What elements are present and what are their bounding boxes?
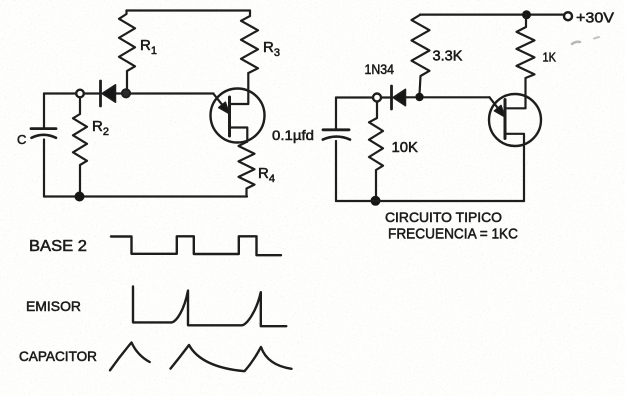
resistor R3: [241, 11, 258, 74]
resistor 3.3K: [412, 15, 430, 95]
node D: junction dot diode/3.3K/emitter (right circuit): [415, 93, 423, 101]
svg-text:1N34: 1N34: [365, 62, 395, 77]
wire: top rail of right circuit: [420, 14, 564, 16]
svg-text:BASE 2: BASE 2: [29, 238, 87, 255]
svg-text:3.3K: 3.3K: [433, 49, 463, 65]
svg-text:EMISOR: EMISOR: [26, 299, 81, 315]
waveform: capacitor ramp first hump: [110, 343, 150, 371]
svg-text:C: C: [17, 132, 26, 147]
node B: junction dot diode/R1/emitter (left circuit): [122, 89, 130, 97]
capacitor 0.1ufd: [323, 130, 350, 140]
resistor R2: [73, 97, 87, 191]
resistor R4: [239, 142, 255, 197]
svg-text:FRECUENCIA = 1KC: FRECUENCIA = 1KC: [388, 227, 518, 243]
waveform: emisor sawtooth pulses: [133, 287, 286, 327]
resistor R1: [119, 11, 135, 90]
wire: left rail lower segment (right circuit): [335, 141, 337, 201]
wire: left rail lower segment: [43, 140, 45, 197]
diode 1N34 (cathode bar left, arrow pointing left): [381, 86, 415, 109]
wire: node D to Q2 emitter: [424, 96, 490, 98]
wire: left rail upper segment (right circuit): [335, 98, 337, 130]
resistor 1K: [517, 15, 535, 96]
diode D1 (cathode bar left, arrow pointing left): [84, 81, 122, 106]
svg-text:10K: 10K: [392, 139, 419, 156]
transistor Q2 (unijunction): [489, 94, 541, 146]
wire: Q2 base1 lead down to bottom rail: [505, 134, 524, 201]
wire: top rail of left circuit (R1 top to R3 top): [127, 9, 251, 11]
transistor Q1 (unijunction): [211, 89, 265, 143]
scan smudge artifact near 1K: [572, 37, 599, 44]
resistor 10K: [369, 102, 383, 196]
waveform: capacitor ramp main strokes: [171, 345, 292, 371]
wire: node A to left rail: [44, 92, 76, 94]
wire: bottom rail of left circuit: [44, 195, 247, 197]
svg-text:+30V: +30V: [576, 10, 614, 27]
junction dot: 10K/bottom rail (right circuit): [371, 196, 381, 206]
junction dot: 1K top / +30V rail: [522, 10, 531, 19]
waveform: base 2 square wave: [111, 236, 281, 255]
svg-text:CIRCUITO TIPICO: CIRCUITO TIPICO: [385, 209, 502, 225]
capacitor C: [31, 129, 56, 138]
svg-text:CAPACITOR: CAPACITOR: [19, 349, 97, 364]
junction dot: R2/bottom rail (left circuit): [75, 192, 85, 202]
svg-text:1K: 1K: [543, 51, 557, 65]
terminal +30V (open circle): [564, 12, 572, 20]
wire: Q1 base1 lead down to R4: [230, 128, 248, 142]
wire: node B to Q1 emitter: [130, 92, 213, 94]
wire: bottom rail of right circuit: [336, 200, 524, 202]
node A: open-circle junction at capacitor/R2/diode (left circuit): [76, 90, 84, 98]
wire: node C to left rail (right circuit): [336, 96, 373, 98]
node C: open-circle junction capacitor/10K/diode (right circuit): [373, 94, 381, 102]
wire: Q1 base2 lead up to R3: [230, 73, 249, 104]
wire: left rail upper segment: [43, 94, 45, 129]
wire: Q2 base2 lead up to 1K: [505, 96, 526, 108]
svg-text:0.1µfd: 0.1µfd: [272, 127, 314, 143]
